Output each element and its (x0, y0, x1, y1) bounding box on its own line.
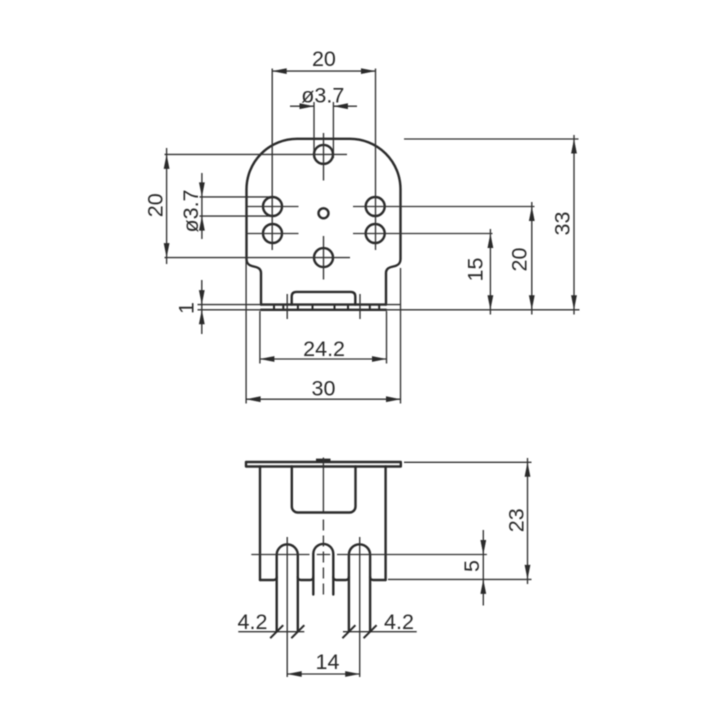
dimension dia 3.7 left (200, 173, 273, 239)
dimension dia 3.7 top (290, 102, 357, 158)
centerline vertical right hole pair / ext of 20 top (375, 69, 377, 251)
right prong centerline (359, 537, 361, 677)
left prong centerline (286, 537, 288, 677)
centerline horizontal lower hole row (247, 233, 493, 235)
right prong (349, 544, 370, 631)
flange (246, 462, 401, 467)
svg-text:20: 20 (144, 193, 168, 217)
body bottom edge with prong fillets (260, 577, 386, 580)
dimension 33 (404, 135, 579, 315)
svg-text:4.2: 4.2 (238, 610, 268, 634)
centerline horizontal top hole / ext of 20 left (165, 153, 348, 155)
svg-text:ø3.7: ø3.7 (301, 84, 344, 108)
svg-text:20: 20 (508, 248, 532, 272)
svg-text:33: 33 (551, 212, 575, 236)
svg-text:30: 30 (312, 377, 336, 401)
centerline vertical bottom hole (323, 236, 325, 280)
centerline vertical left hole pair / ext of 20 top (271, 69, 273, 251)
svg-text:1: 1 (175, 302, 199, 314)
hole bottom center (314, 248, 333, 267)
dimension 5 (482, 530, 484, 606)
hole upper left (263, 197, 282, 216)
hole lower right (366, 224, 385, 243)
flange center tick (316, 459, 331, 463)
dimension 20 left (166, 148, 168, 264)
hole upper right (366, 197, 385, 216)
serration ticks on base strip (274, 305, 379, 310)
centerline horizontal upper hole row (247, 206, 535, 208)
dimension 1 left (201, 280, 203, 334)
svg-text:14: 14 (316, 650, 340, 674)
svg-text:24.2: 24.2 (303, 337, 345, 361)
prong root line (251, 554, 487, 556)
inner slot (292, 467, 356, 513)
svg-text:ø3.7: ø3.7 (179, 189, 203, 232)
dimension 20 top (272, 70, 375, 72)
serration centerline left (286, 294, 288, 319)
small center hole (319, 208, 329, 218)
hole top center (314, 145, 333, 164)
svg-text:23: 23 (505, 508, 529, 532)
hole lower left (263, 224, 282, 243)
centerline vertical top hole (323, 133, 325, 181)
dimension 24.2 (260, 311, 387, 364)
dimension 30 (246, 259, 400, 404)
svg-text:20: 20 (312, 47, 336, 71)
dimension 15 (489, 229, 491, 315)
dimension 4.2 right (343, 631, 417, 633)
plate outline (247, 139, 401, 305)
center prong (313, 544, 333, 595)
dimension 23 (388, 458, 532, 584)
dimension 20 right (531, 202, 533, 315)
main vertical centerline dashed (322, 458, 324, 513)
base strip bottom edge (261, 309, 386, 311)
svg-text:4.2: 4.2 (384, 610, 414, 634)
centerline horizontal bottom hole / ext of 20 left (165, 257, 351, 259)
dimension 4.2 left (238, 631, 304, 633)
serration centerline right (359, 294, 361, 319)
body left edge (259, 467, 261, 581)
dimension 14 (287, 673, 360, 675)
bottom tab (292, 292, 356, 305)
svg-text:5: 5 (460, 560, 484, 572)
base strip top edge (261, 303, 386, 305)
svg-text:15: 15 (464, 258, 488, 282)
body right edge (384, 467, 386, 581)
left prong (277, 544, 298, 631)
